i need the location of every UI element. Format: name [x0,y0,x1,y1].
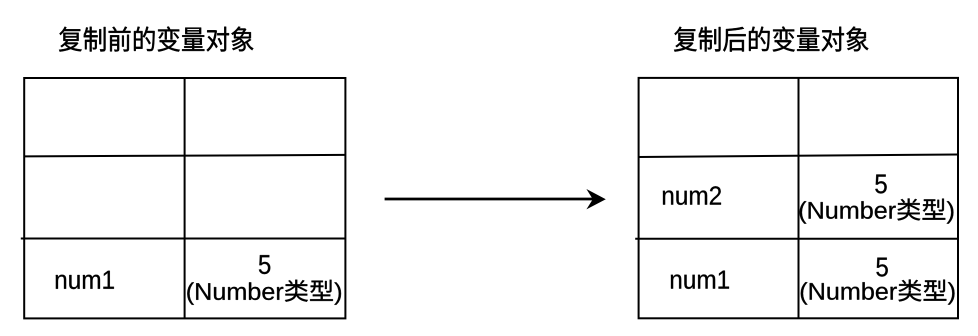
right table row line 2 (with left tick) [635,238,958,240]
title: 复制后的变量对象 (right) [674,27,868,52]
left table column divider [184,78,186,318]
right table row line 1 [639,155,958,158]
right table outer border [639,78,958,318]
right table cell text: num1 [671,271,729,289]
arrow shaft [385,198,593,201]
right table cell text: (Number类型) (middle row) [800,199,954,224]
left table outer border [24,78,345,318]
left table cell text: 5 [259,255,270,274]
right table cell text: num2 [663,186,721,205]
right table cell text: 5 (bottom row) [876,258,887,277]
left table cell text: num1 [56,271,114,289]
left table row line 1 [24,155,345,157]
left table row line 2 (with left tick) [21,238,346,240]
right table cell text: (Number类型) (bottom row) [801,280,955,305]
arrow head [586,189,605,209]
title: 复制前的变量对象 (left) [59,27,253,52]
left table cell text: (Number类型) [187,280,341,305]
right table column divider [798,78,800,318]
right table cell text: 5 (middle row) [875,175,886,194]
